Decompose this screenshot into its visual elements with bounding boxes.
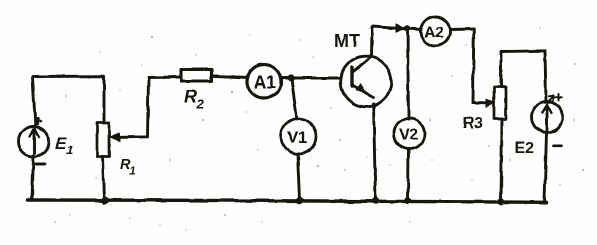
wire A1 to junction to base bbox=[281, 77, 342, 80]
wire collector up bbox=[370, 27, 373, 57]
wire R1 wiper to R2 bbox=[113, 77, 181, 137]
wire R1 bottom lead bbox=[103, 157, 105, 201]
resistor R2 bbox=[181, 70, 212, 82]
wire R3 top to E2 top bbox=[501, 51, 546, 102]
ammeter A1 bbox=[247, 65, 281, 99]
svg-text:V2: V2 bbox=[399, 127, 418, 144]
voltmeter V1 bbox=[281, 119, 316, 154]
voltmeter V2 bbox=[394, 118, 425, 149]
potentiometer R1 bbox=[97, 123, 109, 157]
wire bottom rail bbox=[28, 200, 546, 202]
wire R2 right lead to A1 bbox=[212, 76, 248, 78]
svg-text:A2: A2 bbox=[424, 25, 444, 42]
scan speckle noise bbox=[35, 27, 584, 231]
wire E1 bottom lead bbox=[32, 156, 34, 201]
svg-text:V1: V1 bbox=[287, 128, 307, 147]
wire V2 bottom lead bbox=[407, 149, 410, 201]
ammeter A2 bbox=[421, 17, 450, 46]
node junction V2 with current arrow bbox=[404, 25, 410, 31]
wire V1 top branch bbox=[292, 79, 298, 120]
svg-text:1: 1 bbox=[67, 143, 74, 157]
wire R3 bottom lead bbox=[501, 119, 502, 201]
wire V1 bottom lead bbox=[298, 154, 300, 200]
wire top-left loop E1 to R1 bbox=[33, 76, 105, 127]
svg-text:2: 2 bbox=[196, 97, 205, 112]
transistor Q1 (MT) bbox=[341, 56, 392, 107]
arrow R3 wiper bbox=[486, 99, 495, 107]
wire emitter down bbox=[374, 104, 376, 201]
node junction base/V1 bbox=[287, 74, 294, 81]
wire E2 bottom lead bbox=[545, 133, 547, 203]
wire top collector to A2 bbox=[372, 26, 422, 30]
source E1 bbox=[19, 127, 49, 157]
source E2 bbox=[532, 102, 563, 133]
wire V2 top branch bbox=[408, 29, 409, 119]
svg-text:МТ: МТ bbox=[334, 31, 360, 51]
node dots on bottom rail bbox=[101, 197, 108, 204]
svg-text:R: R bbox=[184, 87, 197, 107]
svg-text:E2: E2 bbox=[515, 140, 535, 157]
svg-text:A1: A1 bbox=[254, 73, 276, 93]
svg-text:E: E bbox=[55, 134, 67, 153]
svg-text:1: 1 bbox=[130, 165, 136, 177]
potentiometer R3 bbox=[494, 87, 506, 119]
svg-text:R3: R3 bbox=[463, 115, 484, 132]
wire to R3 wiper bbox=[473, 101, 487, 104]
wire A2 right and down bbox=[450, 29, 474, 103]
